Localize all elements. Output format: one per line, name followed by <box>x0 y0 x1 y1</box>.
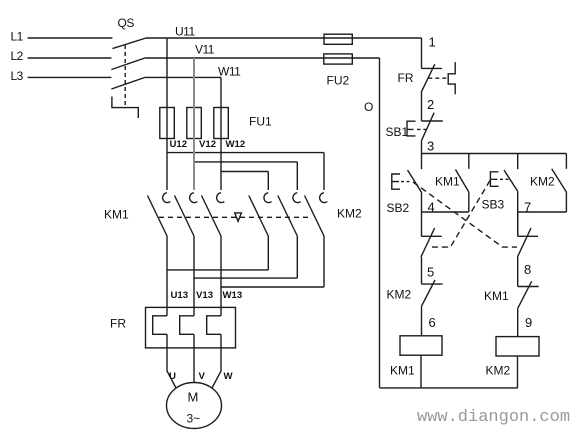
thermal relay FR box <box>146 307 236 348</box>
wire L3 <box>28 76 112 78</box>
contactor KM1 main contact W <box>217 193 225 203</box>
wire crossover U to KM2 right <box>167 153 324 190</box>
svg-text:U: U <box>169 371 176 382</box>
svg-text:5: 5 <box>427 265 434 280</box>
wire below KM2 contact 1 <box>267 236 269 270</box>
svg-text:L3: L3 <box>11 69 24 83</box>
contactor KM2 main contact 3 <box>320 193 328 203</box>
svg-text:U11: U11 <box>175 25 195 39</box>
svg-text:L1: L1 <box>11 30 24 44</box>
KM1-KM2 linkage dashed <box>159 216 311 218</box>
wire crossover V to KM2 mid <box>194 162 297 190</box>
fuse FU2-1 <box>324 34 352 44</box>
svg-text:W13: W13 <box>223 290 243 301</box>
svg-text:FR: FR <box>110 317 126 331</box>
svg-text:V12: V12 <box>199 139 216 150</box>
disconnect switch QS blades <box>111 38 146 89</box>
SB1 actuator E <box>407 121 416 136</box>
svg-text:6: 6 <box>429 315 436 330</box>
coil KM2 <box>496 337 539 356</box>
pushbutton SB3 NO <box>517 154 519 170</box>
wire U to motor <box>167 334 176 388</box>
wire V11 <box>145 57 380 59</box>
wire U below KM1 <box>166 236 168 316</box>
dashed interlock SB3 to left NC <box>431 181 490 248</box>
svg-text:KM2: KM2 <box>387 288 412 302</box>
wire W to motor <box>212 334 221 388</box>
svg-text:7: 7 <box>524 200 531 215</box>
wire node 4 bar <box>422 211 469 213</box>
svg-text:KM2: KM2 <box>530 175 555 189</box>
contactor KM1 main contact U <box>163 193 171 203</box>
svg-text:V11: V11 <box>195 43 215 57</box>
svg-text:SB3: SB3 <box>482 198 505 212</box>
wire 0 rail <box>379 58 381 388</box>
svg-text:8: 8 <box>524 262 531 277</box>
wire V phase vertical gray <box>193 58 195 190</box>
svg-text:www.diangon.com: www.diangon.com <box>417 408 570 427</box>
contact SB2 NC right branch <box>518 235 538 237</box>
contactor KM2 main contact 1 <box>264 193 272 203</box>
SB2 actuator E <box>392 174 400 189</box>
wire below node 7 <box>517 212 519 236</box>
svg-text:3~: 3~ <box>187 412 201 426</box>
wire below KM2 contact 2 <box>296 236 298 278</box>
wire L1 <box>28 37 113 39</box>
wire node 9 <box>517 309 519 337</box>
svg-text:V: V <box>199 371 206 382</box>
wire V below KM1 <box>193 236 195 316</box>
wire W phase vertical <box>220 77 222 190</box>
FR heater U <box>153 316 167 335</box>
contactor KM2 main contact 2 <box>293 193 301 203</box>
pushbutton SB2 NO <box>421 154 423 170</box>
svg-text:4: 4 <box>428 200 435 215</box>
contact KM2 interlock NC <box>422 283 443 285</box>
motor M circle <box>167 383 222 429</box>
wire U11 <box>146 37 422 39</box>
svg-text:KM1: KM1 <box>435 175 460 189</box>
wire node 3 <box>421 141 423 154</box>
svg-text:1: 1 <box>429 35 436 50</box>
wire W11 <box>145 76 221 78</box>
svg-text:U12: U12 <box>170 139 188 150</box>
wire node 6 <box>421 306 423 336</box>
contact SB3 NC left branch <box>422 235 442 237</box>
svg-text:KM2: KM2 <box>337 207 362 221</box>
wire node 8 <box>517 257 519 286</box>
svg-text:KM2: KM2 <box>486 364 511 378</box>
svg-text:W11: W11 <box>218 65 241 79</box>
coil KM1 <box>400 336 442 355</box>
wire V to motor <box>193 334 195 382</box>
linkage triangle <box>235 213 242 221</box>
contact KM2 aux NO <box>565 154 567 169</box>
svg-text:O: O <box>364 100 373 114</box>
svg-text:9: 9 <box>525 315 532 330</box>
FR heater W <box>207 316 221 335</box>
svg-text:U13: U13 <box>171 290 189 301</box>
svg-text:KM1: KM1 <box>390 364 415 378</box>
wire W below KM1 <box>220 236 222 316</box>
svg-text:M: M <box>188 390 199 405</box>
svg-text:L2: L2 <box>11 49 24 63</box>
dashed interlock SB2 to right NC <box>413 182 517 247</box>
contactor KM1 main contact V <box>190 193 198 203</box>
svg-text:V13: V13 <box>196 290 213 301</box>
wire crossover W to KM2 left <box>221 172 268 191</box>
svg-text:KM1: KM1 <box>484 289 509 303</box>
wire L2 <box>28 57 112 59</box>
SB3 actuator E <box>490 172 498 187</box>
wire bus W13 <box>221 286 324 288</box>
svg-text:FU1: FU1 <box>249 115 272 129</box>
wire node 2 <box>421 92 423 121</box>
FR NC contact <box>422 67 442 69</box>
svg-text:SB2: SB2 <box>387 201 410 215</box>
svg-text:3: 3 <box>427 139 434 154</box>
QS linkage dashed <box>124 45 126 108</box>
wire bottom rail <box>380 387 518 389</box>
contact KM1 aux NO <box>468 154 470 169</box>
svg-text:SB1: SB1 <box>386 125 409 139</box>
wire bus U13 <box>167 269 268 271</box>
svg-text:FR: FR <box>398 71 414 85</box>
fuse FU1-U <box>160 108 175 139</box>
pushbutton SB1 NC <box>422 120 443 122</box>
svg-text:FU2: FU2 <box>327 74 350 88</box>
fuse FU1-W <box>214 108 229 139</box>
FR trip symbol <box>448 62 455 94</box>
wire node 5 <box>421 257 423 284</box>
svg-text:2: 2 <box>427 97 434 112</box>
wire bus V13 <box>194 277 297 279</box>
svg-text:W12: W12 <box>226 139 246 150</box>
FR trip dashed link <box>428 77 446 79</box>
contact KM1 interlock NC <box>518 286 539 288</box>
wire below node 4 <box>421 212 423 236</box>
wire bus node 3 <box>422 153 567 155</box>
wire control right drop node 1 <box>421 38 423 68</box>
wire node 7 bar <box>518 211 567 213</box>
svg-text:KM1: KM1 <box>104 208 129 222</box>
svg-text:W: W <box>224 371 234 382</box>
svg-text:QS: QS <box>118 16 135 30</box>
FR heater V <box>180 316 194 335</box>
QS handle bracket <box>112 97 138 119</box>
wire below KM2 contact 3 <box>323 236 325 287</box>
fuse FU1-V <box>187 108 202 139</box>
fuse FU2-2 <box>324 54 353 64</box>
wire U phase vertical <box>166 38 168 190</box>
